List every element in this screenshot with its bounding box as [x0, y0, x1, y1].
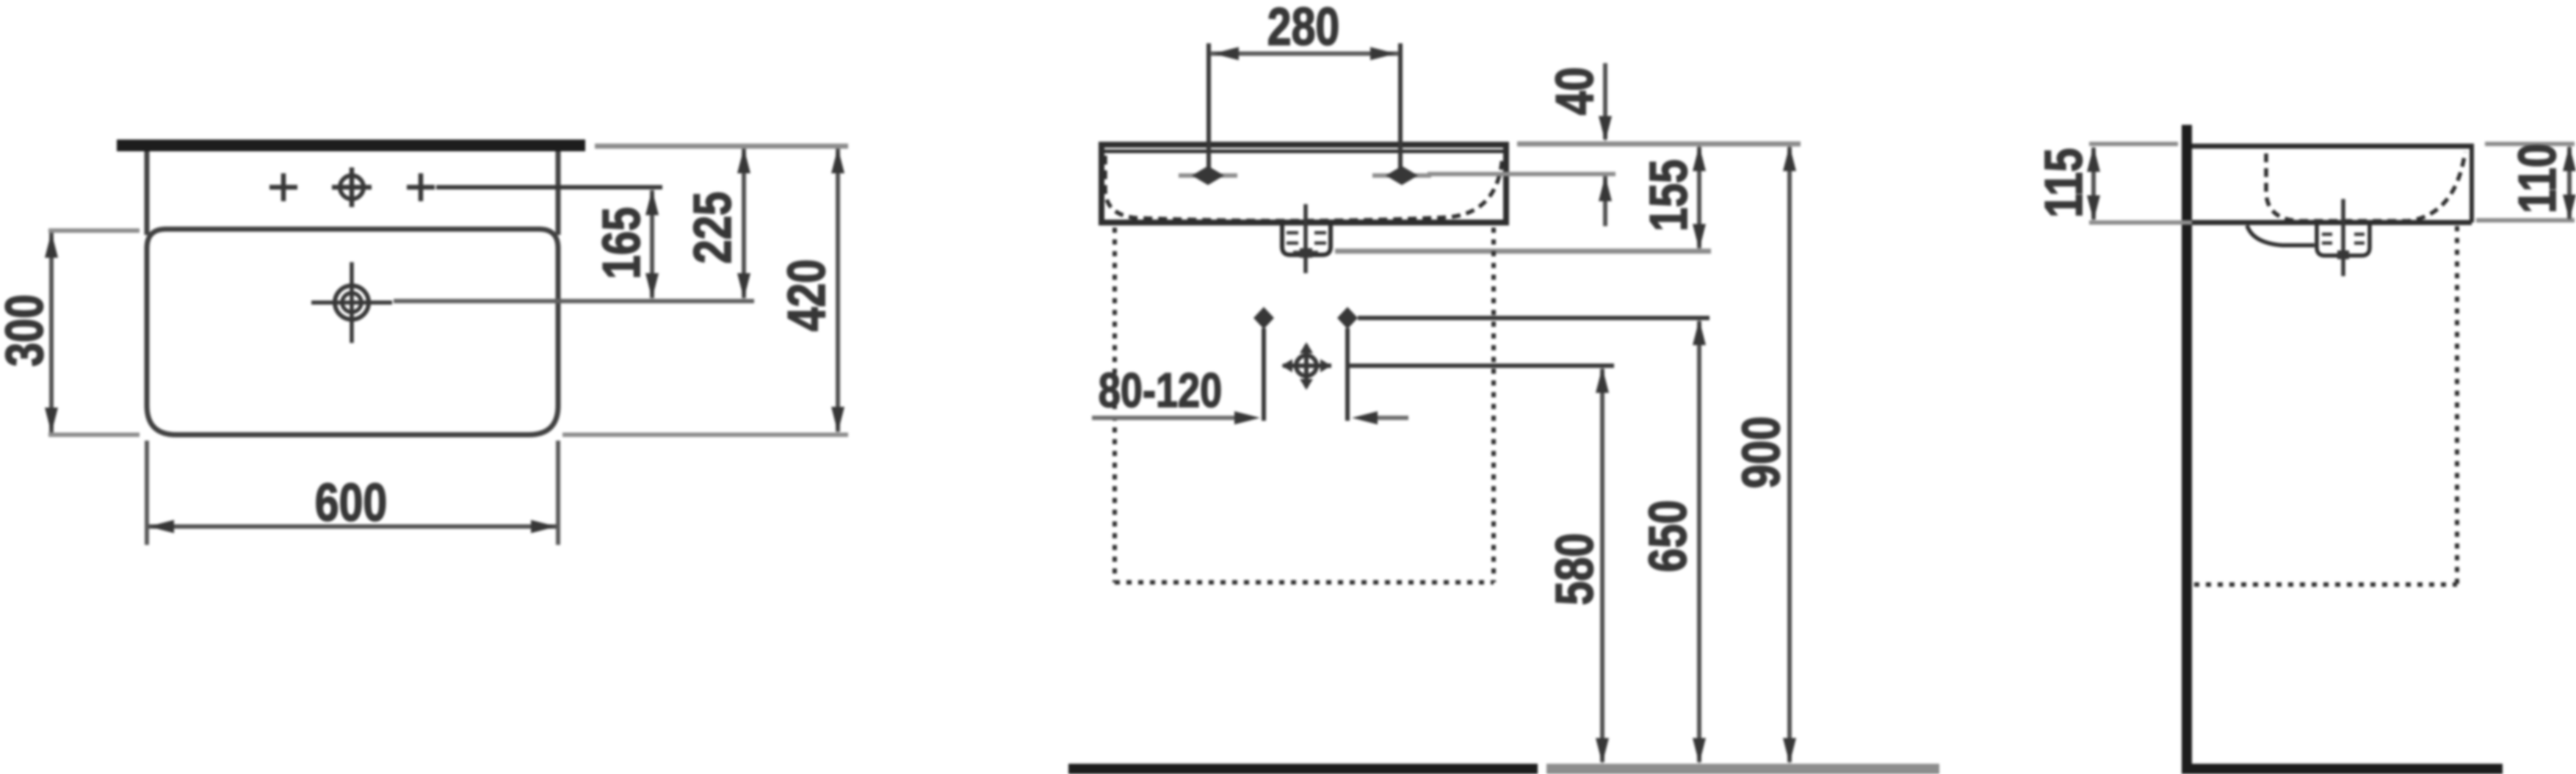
- svg-text:80-120: 80-120: [1099, 363, 1223, 417]
- svg-text:40: 40: [1545, 67, 1604, 115]
- svg-text:155: 155: [1639, 159, 1698, 231]
- svg-text:900: 900: [1732, 416, 1791, 488]
- svg-text:225: 225: [683, 192, 742, 264]
- svg-text:280: 280: [1267, 0, 1339, 56]
- svg-text:580: 580: [1545, 533, 1604, 605]
- svg-text:300: 300: [0, 294, 54, 366]
- svg-text:420: 420: [777, 259, 836, 331]
- svg-text:600: 600: [315, 473, 387, 532]
- svg-text:110: 110: [2508, 143, 2567, 213]
- svg-text:115: 115: [2034, 148, 2094, 217]
- svg-text:650: 650: [1638, 500, 1698, 572]
- svg-text:165: 165: [592, 207, 651, 279]
